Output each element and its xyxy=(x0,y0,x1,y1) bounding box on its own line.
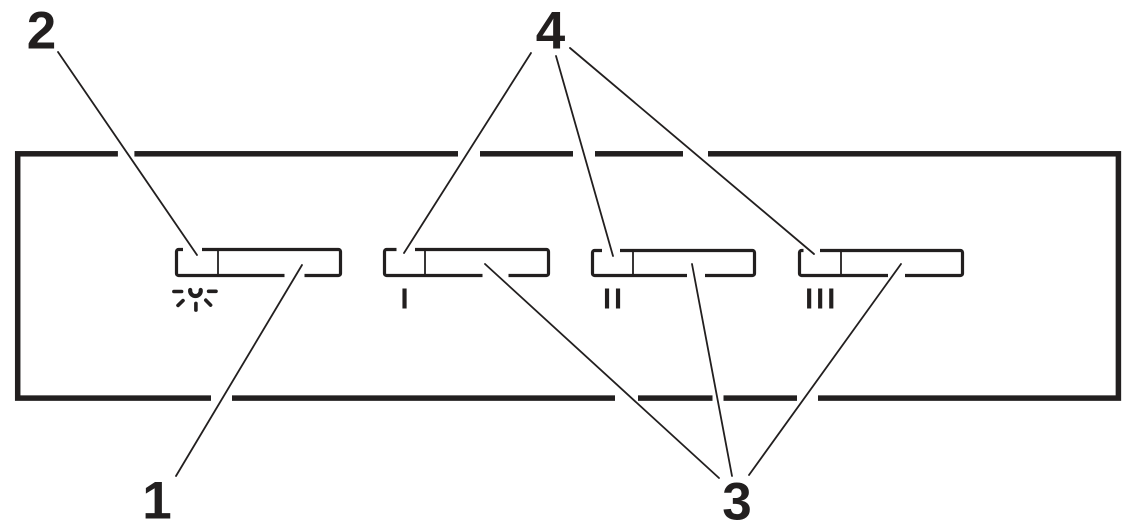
svg-text:III: III xyxy=(805,284,838,316)
svg-text:I: I xyxy=(400,284,408,316)
svg-text:1: 1 xyxy=(142,471,171,529)
svg-text:II: II xyxy=(603,284,625,316)
svg-text:3: 3 xyxy=(722,472,751,529)
svg-text:2: 2 xyxy=(27,1,56,60)
svg-text:4: 4 xyxy=(536,1,566,60)
